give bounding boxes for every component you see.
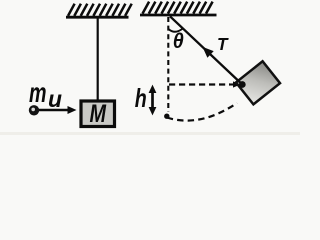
right ceiling line — [140, 14, 217, 17]
svg-text:m: m — [29, 77, 47, 108]
left ceiling hatching — [68, 4, 132, 16]
dashed vertical reference line — [167, 17, 169, 112]
block M — [81, 101, 115, 127]
ball m — [29, 105, 39, 115]
svg-text:T: T — [217, 34, 229, 54]
bob attachment dot — [239, 81, 246, 88]
dashed horizontal line to bob — [169, 83, 230, 85]
bottom scan shadow — [0, 132, 300, 135]
dashed swing arc — [167, 103, 237, 121]
svg-text:θ: θ — [173, 30, 184, 53]
svg-text:u: u — [48, 86, 62, 112]
tension arrowhead — [203, 47, 214, 58]
svg-text:M: M — [90, 100, 107, 128]
svg-text:h: h — [135, 83, 147, 113]
height h double arrow — [151, 88, 154, 112]
right ceiling hatching — [143, 2, 213, 14]
left ceiling line — [66, 16, 129, 19]
pendulum block (tilted) — [236, 61, 280, 104]
velocity arrow u — [39, 109, 69, 111]
pendulum string — [170, 16, 242, 84]
angle arc — [168, 28, 183, 31]
lowest point dot — [164, 114, 169, 119]
string of block M — [97, 18, 99, 102]
